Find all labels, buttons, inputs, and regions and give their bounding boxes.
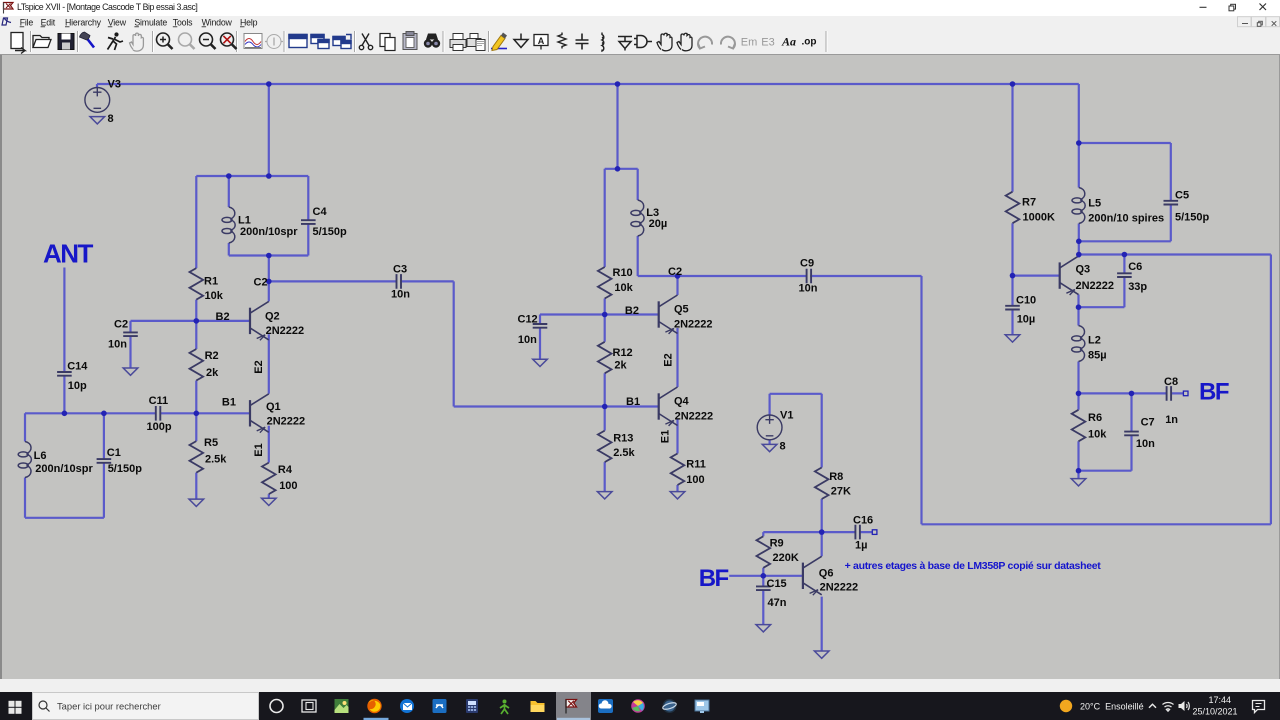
svg-text:L2: L2 [1088,335,1101,347]
svg-text:Taper ici pour rechercher: Taper ici pour rechercher [57,701,161,712]
svg-text:2.5k: 2.5k [205,454,227,466]
svg-text:33p: 33p [1128,281,1147,293]
svg-text:10n: 10n [391,289,410,301]
svg-text:Q5: Q5 [674,304,689,316]
svg-text:C8: C8 [1164,376,1178,388]
svg-text:R13: R13 [613,433,633,445]
svg-text:200n/10 spires: 200n/10 spires [1088,213,1164,225]
svg-text:R1: R1 [204,276,218,288]
svg-text:C7: C7 [1141,417,1155,429]
svg-text:100: 100 [686,474,704,486]
svg-text:Q4: Q4 [674,396,690,408]
svg-text:+ autres etages à base de LM35: + autres etages à base de LM358P copié s… [845,560,1102,572]
svg-text:R11: R11 [686,458,706,470]
svg-text:BF: BF [1199,379,1229,406]
svg-text:8: 8 [780,440,786,452]
svg-text:2.5k: 2.5k [613,447,635,459]
svg-text:20°C Ensoleillé: 20°C Ensoleillé [1080,702,1144,712]
svg-text:5/150p: 5/150p [313,226,348,238]
svg-text:C11: C11 [149,395,169,407]
svg-text:2N2222: 2N2222 [820,581,859,593]
svg-text:C9: C9 [800,258,814,270]
svg-text:C2: C2 [254,276,268,288]
svg-text:E1: E1 [660,430,672,443]
svg-text:R12: R12 [613,347,633,359]
svg-text:10p: 10p [68,380,87,392]
svg-text:E1: E1 [253,443,265,456]
svg-text:2N2222: 2N2222 [1076,280,1115,292]
svg-text:C6: C6 [1128,261,1142,273]
svg-text:R6: R6 [1088,412,1102,424]
svg-text:R10: R10 [613,267,633,279]
svg-text:B2: B2 [216,311,230,323]
svg-text:10k: 10k [1088,429,1107,441]
svg-text:R7: R7 [1022,197,1036,209]
svg-text:27K: 27K [831,485,851,497]
svg-text:V1: V1 [780,410,793,422]
svg-text:E2: E2 [253,360,265,373]
svg-text:B1: B1 [626,396,640,408]
svg-text:C16: C16 [853,515,873,527]
svg-text:Q6: Q6 [819,568,834,580]
svg-text:17:44: 17:44 [1208,695,1231,705]
svg-text:Q1: Q1 [266,401,281,413]
svg-text:R2: R2 [205,350,219,362]
svg-text:2N2222: 2N2222 [674,318,713,330]
svg-text:2k: 2k [206,367,219,379]
svg-text:R9: R9 [770,538,784,550]
svg-text:C2: C2 [668,266,682,278]
svg-text:10n: 10n [108,339,127,351]
svg-text:100: 100 [279,480,297,492]
svg-text:1µ: 1µ [855,540,867,552]
svg-text:47n: 47n [768,597,787,609]
svg-text:8: 8 [108,113,114,125]
svg-text:10k: 10k [614,282,633,294]
svg-text:5/150p: 5/150p [108,463,143,475]
svg-text:C4: C4 [313,206,328,218]
svg-text:5/150p: 5/150p [1175,212,1210,224]
svg-text:R5: R5 [204,437,218,449]
svg-text:L6: L6 [34,450,47,462]
svg-text:200n/10spr: 200n/10spr [35,463,93,475]
svg-text:25/10/2021: 25/10/2021 [1192,707,1237,717]
svg-text:C14: C14 [67,361,88,373]
svg-text:1000K: 1000K [1023,212,1055,224]
svg-text:BF: BF [699,565,729,592]
svg-text:2N2222: 2N2222 [267,416,306,428]
svg-text:R4: R4 [278,464,293,476]
svg-text:100p: 100p [147,421,172,433]
svg-text:C1: C1 [107,447,121,459]
svg-text:10n: 10n [1136,438,1155,450]
svg-text:L5: L5 [1088,198,1101,210]
svg-text:E2: E2 [663,353,675,366]
svg-text:85µ: 85µ [1088,350,1107,362]
svg-text:2k: 2k [614,360,627,372]
svg-text:B1: B1 [222,397,236,409]
svg-text:2N2222: 2N2222 [675,411,714,423]
svg-text:C15: C15 [767,578,787,590]
svg-text:Q3: Q3 [1076,264,1091,276]
svg-text:C3: C3 [393,264,407,276]
svg-text:ANT: ANT [43,239,94,269]
svg-text:200n/10spr: 200n/10spr [240,226,298,238]
svg-text:C12: C12 [518,314,538,326]
svg-text:10n: 10n [799,283,818,295]
svg-text:10µ: 10µ [1017,314,1036,326]
svg-text:C2: C2 [114,319,128,331]
svg-text:V3: V3 [108,78,121,90]
svg-text:2N2222: 2N2222 [266,325,305,337]
svg-text:10n: 10n [518,334,537,346]
svg-text:B2: B2 [625,305,639,317]
svg-text:Q2: Q2 [265,311,280,323]
svg-text:C5: C5 [1175,190,1189,202]
svg-text:220K: 220K [773,552,799,564]
svg-text:20µ: 20µ [649,218,668,230]
svg-text:L3: L3 [646,207,659,219]
svg-text:L1: L1 [238,214,251,226]
svg-text:10k: 10k [205,290,224,302]
svg-text:1n: 1n [1165,414,1178,426]
svg-text:C10: C10 [1016,295,1036,307]
svg-text:R8: R8 [829,471,843,483]
